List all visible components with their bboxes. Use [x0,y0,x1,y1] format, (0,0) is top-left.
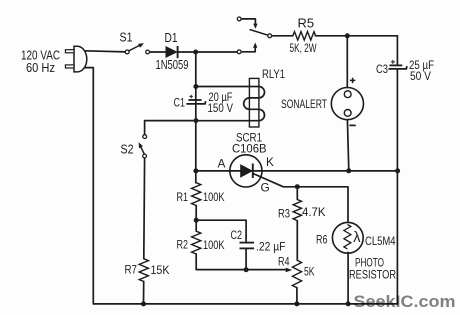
node: D1-C1 junction [193,50,198,55]
wire: sonalert bottom to K-line junction [347,120,348,171]
svg-text:5K, 2W: 5K, 2W [290,41,317,55]
wire: S2 top to coil bottom horizontal y=120.6 [145,121,196,135]
plug prong bottom [65,65,74,68]
svg-text:C3: C3 [376,62,388,76]
svg-text:S2: S2 [121,143,134,157]
svg-text:C106B: C106B [232,142,267,156]
svg-text:SeekIC.com: SeekIC.com [354,292,456,311]
svg-text:100K: 100K [203,190,225,204]
sonalert [281,78,364,126]
switch S2 [121,135,147,158]
photoresistor R6 CL5M4 [316,222,396,281]
node: R1-R2 junction [194,218,199,223]
SCR1 C106B [218,131,275,195]
wire: C1 junction to relay coil, coil loops, return to y=120.6 line [196,87,265,121]
svg-text:100K: 100K [203,238,225,252]
wire: C2 bottom stub [245,248,247,269]
node: R6 bottom rail junction [346,301,351,306]
svg-text:.22 µF: .22 µF [256,239,286,253]
svg-text:RESISTOR: RESISTOR [349,267,396,281]
svg-text:4.7K: 4.7K [302,205,326,219]
svg-text:150 V: 150 V [208,101,234,115]
node: C2 bottom junction [244,267,249,272]
svg-text:R3: R3 [278,206,290,220]
svg-text:G: G [261,180,270,194]
wire: R5 to top-right corner [315,35,397,37]
arrow down on upper stub [253,24,257,29]
svg-text:R6: R6 [316,232,328,246]
resistor R2 100K [177,231,225,254]
wire: gate diagonal and run to photoresistor column [253,174,348,223]
wire: sonalert feed from R5 junction [346,36,348,88]
relay contact set (SPDT) [237,17,271,54]
wire: S1 to D1 anode [149,51,166,53]
node: R4 bottom rail junction [294,301,299,306]
wire: R4 bottom to rail [296,288,298,304]
diode D1 1N5059 [156,31,189,72]
svg-text:K: K [266,155,274,169]
wire: R1-R2 junction to C2 top [196,220,246,242]
svg-text:A: A [218,156,226,170]
svg-text:5K: 5K [304,265,315,279]
svg-text:1N5059: 1N5059 [156,58,189,72]
svg-text:C1: C1 [174,95,186,109]
svg-text:CL5M4: CL5M4 [365,234,396,248]
wire: plug top prong to S1 [84,51,125,52]
svg-text:R4: R4 [278,254,290,268]
resistor R5 5K 2W [290,17,317,56]
node: S2-C1 junction [194,118,199,123]
plug P1 body [74,46,87,72]
wire: left vertical rail x=196 (D1 junction down to R2 bottom corner) [195,52,197,183]
wire: relay lower contact stub with up arrow [241,47,255,52]
node: gate/R3 junction [295,184,300,189]
svg-text:50 V: 50 V [410,69,432,83]
plug prong top [65,50,74,53]
node: K-line right junction [395,168,400,173]
switch S1 [120,31,150,54]
wire: R2 bottom to R4 wiper arrow [196,254,286,270]
wire: plug bottom prong right then down left rail [84,68,93,304]
svg-text:D1: D1 [165,31,178,45]
wire: S2 bottom down through R7 to bottom rail [143,158,146,259]
contact blade [250,30,268,36]
svg-text:R1: R1 [177,190,189,204]
wire: right vertical through C3 down to bottom rail [396,36,398,65]
wire: R3 top stub [296,187,298,200]
svg-text:R2: R2 [177,238,189,252]
capacitor C1 20uF 150V [174,90,234,115]
wire: R6 bottom to rail [347,252,349,304]
wire: relay common to R5 [272,35,293,37]
node: C1 top junction [193,84,198,89]
wire: anode-cathode horizontal y=170.9 [196,170,398,172]
svg-text:R7: R7 [125,263,138,277]
capacitor C2 .22uF [231,228,286,254]
svg-text:15K: 15K [151,263,170,277]
wire: R3 bottom to R4 top [296,221,298,261]
svg-text:SONALERT: SONALERT [281,97,327,111]
resistor R7 15K [125,259,170,282]
arrow up on lower stub [253,43,257,48]
svg-text:λ: λ [353,230,361,246]
svg-text:60 Hz: 60 Hz [26,61,55,75]
capacitor C3 25uF 50V [376,58,434,83]
node: R7 bottom rail junction [141,301,146,306]
node: R5-sonalert junction [345,33,350,38]
node: anode junction [193,168,198,173]
potentiometer R4 5K [278,254,315,288]
svg-text:C2: C2 [231,228,243,242]
resistor R1 100K [177,183,225,206]
wire: relay upper contact stub with down arrow [241,19,255,24]
wire: D1 cathode to relay contact [178,51,238,53]
svg-text:RLY1: RLY1 [262,67,285,81]
svg-text:S1: S1 [120,31,133,45]
resistor R3 4.7K [278,200,326,221]
relay coil RLY1 [249,67,285,127]
wire: bottom rail [93,303,397,305]
node: sonalert/K junction [346,168,351,173]
svg-text:R5: R5 [298,17,315,31]
